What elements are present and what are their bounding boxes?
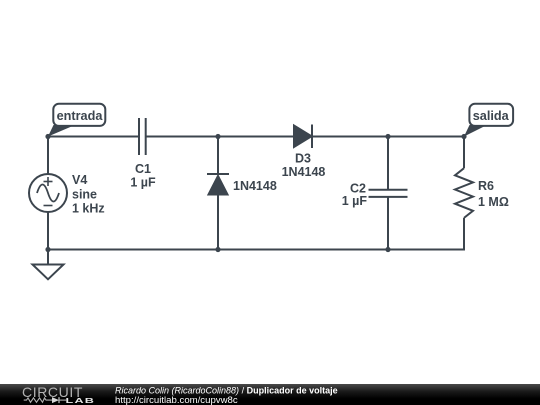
svg-text:1N4148: 1N4148 [233,179,277,193]
footer bar [0,384,540,405]
diode D2 1N4148 (shunt) [207,137,229,250]
ground [33,265,64,280]
flag salida [464,104,513,137]
svg-text:1 µF: 1 µF [130,176,156,190]
node dot bottom C2 [385,247,390,252]
node dot top D2 [215,134,220,139]
svg-text:http://circuitlab.com/cupvw8c: http://circuitlab.com/cupvw8c [115,395,238,405]
wire: bottom rail [48,249,464,251]
svg-text:C1: C1 [135,162,151,176]
svg-text:entrada: entrada [57,109,104,123]
wire: top rail node A to C1 [48,136,139,138]
svg-text:1 MΩ: 1 MΩ [478,195,509,209]
capacitor C1 [139,118,146,155]
flag entrada [48,104,105,137]
node dot bottom D2 [215,247,220,252]
wire: C1 to D3 [146,136,294,138]
logo resistor-diode squiggle [24,397,67,403]
wire: V4 top lead [47,137,49,175]
node dot entrada [45,134,50,139]
voltage source V4 [29,174,67,212]
capacitor C2 [369,137,408,250]
svg-text:salida: salida [473,109,510,123]
wire: D3 to node salida [312,136,464,138]
svg-text:V4: V4 [72,173,87,187]
svg-text:D3: D3 [295,152,311,166]
wire: ground lead [47,250,49,265]
svg-text:sine: sine [72,188,97,202]
svg-text:LAB: LAB [66,397,96,405]
diode D3 (series) [294,125,312,149]
svg-text:1 kHz: 1 kHz [72,202,105,216]
wire: V4 bottom lead [47,212,49,250]
node dot top C2 [385,134,390,139]
node dot salida [461,134,466,139]
svg-text:R6: R6 [478,179,494,193]
svg-text:1N4148: 1N4148 [282,165,326,179]
node dot bottom V4 [45,247,50,252]
resistor R6 [455,137,473,251]
svg-text:Ricardo Colin (RicardoColin88): Ricardo Colin (RicardoColin88) / Duplica… [115,386,338,396]
svg-text:1 µF: 1 µF [342,194,368,208]
